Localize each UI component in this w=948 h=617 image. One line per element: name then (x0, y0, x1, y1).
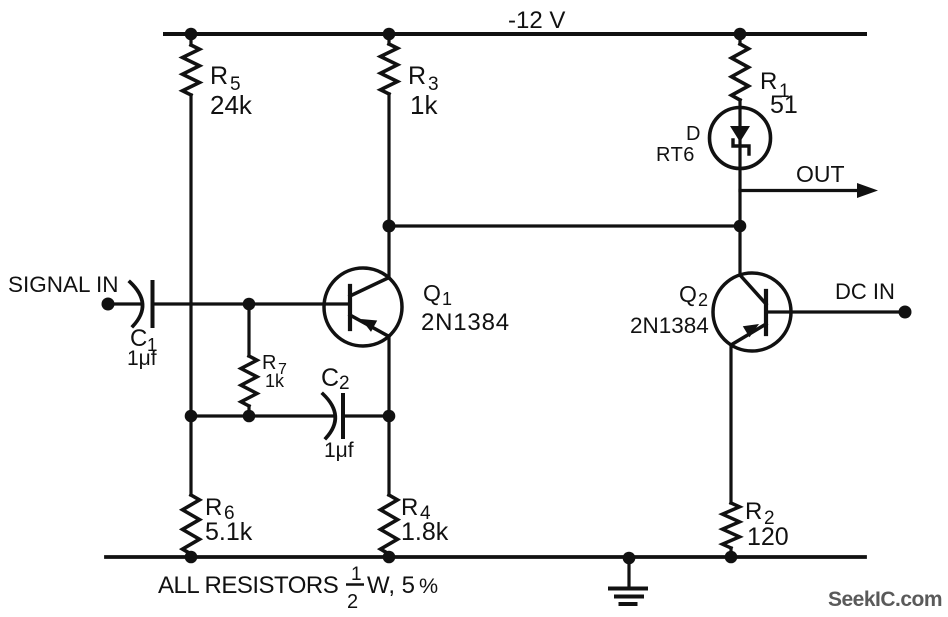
wire: -12V top supply rail (165, 32, 865, 36)
wire: bottom common rail (106, 555, 865, 559)
svg-text:ALL RESISTORS: ALL RESISTORS (158, 572, 338, 599)
node: R7 bottom junction (243, 410, 256, 423)
diode D RT6 (circle) (710, 108, 771, 169)
svg-text:W, 5: W, 5 (367, 572, 415, 599)
node: signal input terminal (102, 298, 115, 311)
svg-text:1k: 1k (265, 371, 285, 391)
node: left lower junction (185, 410, 198, 423)
svg-text:SeekIC.com: SeekIC.com (828, 588, 942, 611)
node: R3 top junction (383, 28, 396, 41)
svg-text:2N1384: 2N1384 (630, 313, 709, 338)
resistor R7 (241, 356, 257, 406)
svg-text:2: 2 (347, 591, 358, 613)
node: R4 bottom junction (383, 551, 396, 564)
transistor Q2 emitter arrow (PNP, points to base) (743, 324, 759, 337)
wire: Q2 emitter down to R2 (729, 345, 732, 503)
node: DC IN terminal (899, 306, 912, 319)
svg-text:R: R (745, 498, 762, 525)
transistor Q1 circle (324, 268, 402, 346)
svg-text:-12 V: -12 V (508, 7, 565, 34)
svg-text:1.8k: 1.8k (401, 518, 449, 546)
svg-text:C: C (321, 364, 339, 392)
svg-text:1k: 1k (410, 90, 438, 120)
svg-text:2: 2 (339, 373, 350, 394)
wire: Q2 base lead to DC IN (766, 310, 899, 313)
capacitor C1 curved plate (130, 282, 143, 326)
wire: signal input line to Q1 base (113, 302, 142, 305)
node: R5 top junction (185, 28, 198, 41)
svg-text:R: R (205, 494, 222, 521)
diode D RT6 cathode bar (zener style) (733, 140, 749, 154)
svg-text:1: 1 (442, 289, 452, 309)
svg-text:51: 51 (770, 91, 798, 119)
svg-text:R: R (408, 62, 426, 90)
ground symbol (627, 557, 630, 588)
svg-text:1μf: 1μf (324, 439, 354, 462)
node: C2 right junction (383, 410, 396, 423)
svg-text:2N1384: 2N1384 (421, 309, 510, 336)
svg-text:24k: 24k (210, 90, 253, 120)
transistor Q1 emitter arrow (PNP, points to base) (361, 319, 377, 332)
svg-text:D: D (686, 123, 700, 145)
transistor Q2 circle (713, 273, 791, 351)
node: R2 bottom junction (725, 551, 738, 564)
svg-text:DC IN: DC IN (835, 279, 895, 304)
transistor Q2 base bar (764, 291, 768, 334)
wire: left vertical branch (R5/R6 divider) (189, 34, 192, 45)
diode D RT6 anode triangle (730, 126, 750, 142)
resistor R2 (723, 503, 740, 548)
node: Q2 collector / link junction (734, 220, 747, 233)
resistor R1 (732, 44, 749, 100)
svg-text:5.1k: 5.1k (205, 518, 253, 546)
transistor Q1 emitter stroke (350, 315, 389, 337)
wire: R7 branch (247, 304, 250, 356)
capacitor C1 straight plate (151, 282, 155, 326)
node: ground junction (623, 552, 636, 565)
resistor R3 (381, 44, 398, 94)
transistor Q1 collector stroke (350, 278, 389, 297)
capacitor C2 straight plate (341, 395, 345, 437)
svg-text:1: 1 (351, 564, 362, 585)
transistor Q1 base bar (348, 286, 352, 329)
svg-text:Q: Q (679, 281, 697, 307)
svg-text:SIGNAL IN: SIGNAL IN (8, 272, 118, 297)
wire: OUT line with arrowhead (740, 189, 860, 192)
transistor Q2 emitter stroke (731, 324, 766, 345)
wire: horizontal link from Q1 collector node to Q2 collector node (389, 224, 740, 227)
svg-text:Q: Q (423, 280, 441, 306)
node: R1 top junction (734, 28, 747, 41)
svg-text:1μf: 1μf (127, 347, 157, 370)
svg-text:R: R (401, 494, 418, 521)
resistor R5 (183, 45, 200, 95)
wire: second vertical branch (R3 / Q1 collector-emitter / R4) (387, 34, 390, 44)
node: R6 bottom junction (185, 551, 198, 564)
svg-text:120: 120 (747, 523, 789, 551)
node: R7 top junction (243, 298, 256, 311)
svg-text:R: R (210, 62, 228, 90)
wire: lower horizontal link with C2 (191, 414, 334, 417)
svg-text:%: % (419, 574, 438, 598)
wire: right vertical branch (R1 / diode / Q2) (738, 34, 741, 44)
resistor R6 (183, 495, 200, 554)
svg-text:OUT: OUT (796, 161, 845, 187)
node: Q1 collector / link junction (383, 220, 396, 233)
capacitor C2 curved plate (323, 394, 335, 438)
resistor R4 (381, 495, 398, 554)
svg-text:2: 2 (698, 290, 708, 310)
transistor Q2 collector stroke (740, 275, 766, 304)
svg-text:RT6: RT6 (656, 144, 695, 166)
